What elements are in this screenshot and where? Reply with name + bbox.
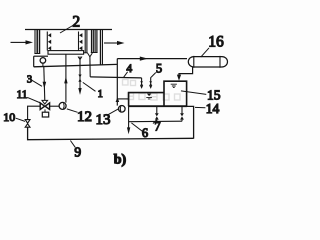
pipe 9 run	[28, 127, 194, 140]
pump riser	[65, 54, 67, 102]
riser up-arrow	[64, 76, 67, 83]
main condensate pipe	[34, 64, 117, 66]
supply arrow	[140, 57, 148, 61]
label 5 leader	[151, 73, 156, 78]
riser up arrow	[116, 97, 120, 102]
drain 1 arrowhead	[78, 88, 81, 95]
pipe 4 horizontal	[90, 77, 141, 78]
svg-text:5: 5	[156, 61, 162, 75]
duct bottom-left wall	[34, 55, 48, 57]
three-way valve left triangle	[40, 103, 45, 110]
three-way valve right triangle	[45, 103, 50, 110]
left tank walls	[129, 93, 164, 107]
label 11 leader	[27, 97, 40, 103]
label 9 leader	[70, 141, 75, 148]
watermark	[123, 80, 181, 101]
funnel drain	[88, 53, 93, 57]
overflow pipe 6	[128, 106, 130, 128]
drop 4 arrowhead	[140, 85, 143, 89]
svg-text:13: 13	[96, 112, 111, 128]
label 13 leader	[108, 109, 119, 115]
three-way valve 11 top triangle	[42, 100, 48, 104]
cylinder drain elbow	[179, 67, 193, 75]
tank drain valve 7a stub	[156, 106, 158, 113]
air outlet arrow	[104, 41, 125, 45]
label 12 leader	[67, 109, 78, 112]
label 2 leader	[60, 25, 75, 34]
label 6 leader	[131, 123, 142, 132]
label 1 leader	[83, 82, 96, 91]
valve 10	[25, 120, 30, 128]
valve to pump line	[50, 105, 60, 107]
steam trap circle	[40, 58, 46, 64]
drain 1 funnel	[78, 57, 82, 60]
drain 4 vertical from funnel	[89, 57, 91, 77]
drop pipe 5 into tank	[150, 77, 152, 85]
right coil bank (outer pair)	[85, 30, 87, 53]
svg-text:4: 4	[126, 63, 132, 75]
svg-text:7: 7	[154, 120, 160, 134]
drop 5 valve bulge	[149, 81, 152, 85]
riser to steam line	[116, 59, 118, 106]
svg-text:1: 1	[98, 89, 103, 100]
svg-text:11: 11	[16, 89, 27, 101]
svg-text:12: 12	[77, 109, 92, 125]
pipe 3 downpipe	[44, 67, 45, 101]
label 16 leader	[201, 48, 209, 57]
pipe 3 arrowhead	[43, 82, 47, 89]
pump 12	[59, 102, 66, 109]
left tank water mark	[147, 94, 151, 97]
svg-text:6: 6	[142, 126, 148, 140]
pipe 6 arrowhead	[127, 127, 130, 134]
svg-text:3: 3	[27, 74, 32, 85]
label 15 leader	[181, 91, 206, 95]
cylinder drain arrow	[177, 75, 181, 81]
steam supply line to cylinder	[117, 58, 187, 60]
pump 13 vane	[119, 106, 122, 111]
air inlet arrow	[11, 40, 34, 44]
cylinder weld lines	[194, 56, 220, 68]
spray pipe 1 (chevron column)	[47, 32, 51, 51]
svg-text:9: 9	[74, 145, 81, 160]
label 3 leader	[32, 80, 42, 86]
duct top wall	[25, 29, 112, 31]
drain 1 trap bowtie	[78, 75, 81, 82]
svg-text:2: 2	[72, 13, 80, 30]
tank suction line	[117, 98, 128, 100]
spray pipe 2 (chevron column)	[79, 32, 83, 51]
svg-text:10: 10	[3, 110, 15, 124]
tank drain valve 7b stub	[181, 106, 183, 113]
cylinder 16	[188, 57, 227, 67]
right coil bank (dense group)	[91, 30, 98, 53]
valve 7b lower stub	[181, 120, 183, 122]
drain 1 pipe	[79, 56, 81, 88]
drop pipe 4 into tank	[141, 78, 143, 85]
right tank water mark	[171, 84, 177, 87]
label 7 leader	[153, 120, 157, 124]
drop 5 arrowhead	[149, 85, 152, 89]
label 10 leader	[16, 118, 25, 121]
left coil bank	[34, 30, 40, 54]
pump 13	[119, 106, 126, 113]
right tank walls	[164, 81, 187, 106]
pump 12 vane	[62, 103, 65, 108]
svg-text:16: 16	[208, 33, 224, 50]
pan outlet connector	[84, 52, 88, 54]
tank bottom	[128, 105, 187, 107]
trap stub	[42, 63, 44, 66]
valve 7b	[180, 113, 184, 119]
valve 7a	[155, 113, 159, 119]
valve left branch	[28, 106, 41, 120]
valve actuator stub	[44, 109, 46, 112]
valve actuator box	[42, 112, 48, 117]
svg-text:14: 14	[206, 101, 220, 116]
duct left downcomer wall	[33, 56, 35, 67]
valve 7a lower stub	[156, 120, 158, 122]
condensate pan	[48, 51, 84, 55]
drop 4 valve bulge	[140, 81, 143, 85]
right bank risers	[100, 30, 102, 65]
label 14 leader	[195, 106, 205, 108]
tank drain stub to pipe 9	[187, 106, 194, 138]
label 4 leader	[124, 72, 128, 78]
drain header	[129, 120, 182, 123]
svg-text:b): b)	[114, 153, 127, 168]
